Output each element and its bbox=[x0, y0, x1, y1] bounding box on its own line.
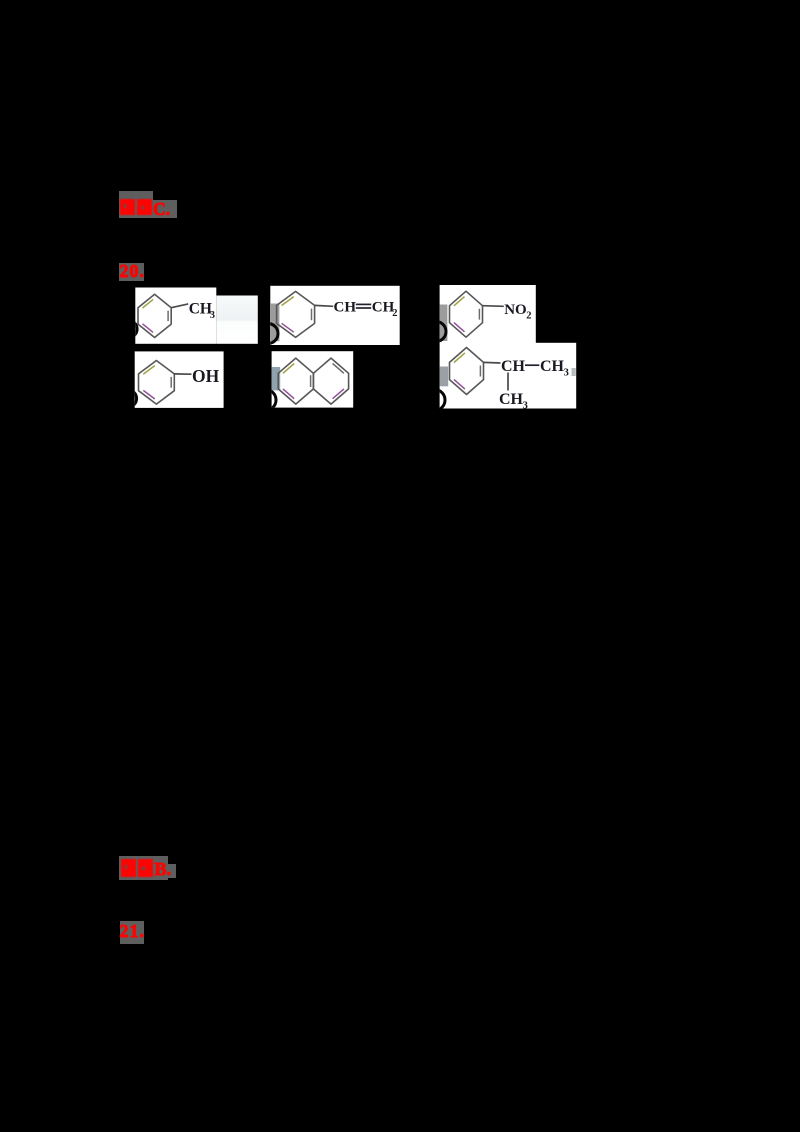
shared double bond of naphthalene bbox=[310, 375, 312, 387]
double bond R4 UR-LR bbox=[170, 377, 172, 388]
question number highlight "21." bbox=[120, 921, 144, 945]
benzene ring R1 bbox=[138, 294, 171, 337]
gray scan column at left edge of box 2 bbox=[271, 304, 280, 342]
svg-text:CH: CH bbox=[499, 391, 524, 408]
red text 21. bbox=[120, 921, 146, 942]
double bond R2 UL-T bbox=[282, 297, 294, 306]
answer highlight "故选B." bbox=[119, 856, 168, 880]
svg-text:3: 3 bbox=[523, 400, 528, 411]
benzene ring R2 bbox=[277, 291, 315, 337]
red character 故 bbox=[120, 199, 135, 216]
svg-text:4: 4 bbox=[126, 394, 132, 406]
vertical bond CH to CH3 bbox=[507, 373, 509, 391]
white image box 3 (nitrobenzene) bbox=[440, 285, 536, 343]
gray scan column at left edge of box 5 bbox=[272, 367, 281, 390]
svg-text:2: 2 bbox=[392, 308, 397, 319]
bond ring2 to vinyl bbox=[315, 304, 334, 307]
circled number 2 (partially visible at box edge) bbox=[258, 324, 278, 344]
circled number 6 (partially visible at box edge) bbox=[424, 390, 445, 411]
double bond R5L B-LL bbox=[283, 389, 294, 399]
double bond R3 B-LL bbox=[454, 323, 465, 332]
gray scan column at left edge of box 6 bbox=[440, 367, 449, 387]
double bond R1 UL-T bbox=[143, 299, 154, 308]
red character 选 bbox=[137, 199, 152, 216]
svg-text:CH: CH bbox=[540, 358, 565, 375]
double bond R4 UL-T bbox=[143, 366, 155, 375]
faded ghost strip right of box 1 bbox=[216, 296, 257, 344]
white image box 2 (styrene) bbox=[270, 286, 399, 345]
double bond R5L UL-T bbox=[283, 364, 294, 374]
double bond R1 B-LL bbox=[143, 324, 154, 333]
benzene ring R6 bbox=[450, 348, 484, 395]
question number highlight "20." bbox=[119, 263, 144, 281]
svg-text:CH: CH bbox=[334, 300, 357, 316]
red text B. bbox=[155, 859, 172, 880]
circled number 5 (partially visible at box edge) bbox=[255, 390, 276, 411]
bond ring6 to CH bbox=[484, 361, 501, 364]
svg-text:6: 6 bbox=[432, 396, 438, 408]
circled number 3 (partially visible at box edge) bbox=[426, 322, 446, 342]
white image box 1 (toluene) bbox=[135, 288, 216, 344]
svg-text:3: 3 bbox=[434, 327, 440, 339]
svg-text:2: 2 bbox=[526, 310, 531, 321]
double bond R6 B-LL bbox=[454, 380, 465, 390]
benzene ring R4 bbox=[139, 361, 175, 405]
svg-text:CH: CH bbox=[501, 358, 526, 375]
gray scan column at left edge of box 3 bbox=[440, 305, 448, 342]
red text C. bbox=[153, 199, 170, 220]
double bond R5R T-UR bbox=[333, 364, 344, 374]
svg-text:OH: OH bbox=[192, 366, 220, 386]
double bond R3 UL-T bbox=[454, 297, 465, 306]
svg-text:CH: CH bbox=[189, 301, 212, 318]
svg-text:3: 3 bbox=[564, 368, 569, 379]
gray comma remnant at right edge of box 6 bbox=[572, 368, 576, 376]
double bond R1 UR-LR bbox=[167, 311, 169, 321]
circled number 4 (partially visible at box edge) bbox=[119, 390, 136, 407]
double bond R3 UR-LR bbox=[478, 309, 480, 320]
bond ring3 to NO2 bbox=[483, 305, 504, 308]
bond ring1 to CH3 bbox=[171, 304, 188, 308]
double bond R6 UR-LR bbox=[479, 366, 481, 377]
benzene ring R5R bbox=[313, 358, 348, 404]
double bond R2 UR-LR bbox=[311, 309, 313, 321]
answer highlight "故选C." bbox=[119, 191, 153, 218]
benzene ring R5L bbox=[278, 358, 313, 404]
svg-text:5: 5 bbox=[263, 396, 269, 408]
svg-text:NO: NO bbox=[504, 302, 527, 318]
double bond R2 B-LL bbox=[282, 323, 294, 332]
red text 20. bbox=[120, 261, 146, 282]
svg-text:1: 1 bbox=[126, 325, 132, 337]
benzene ring R3 bbox=[450, 291, 483, 337]
svg-text:3: 3 bbox=[210, 310, 215, 321]
svg-text:2: 2 bbox=[266, 329, 272, 341]
red character 故 bbox=[121, 859, 136, 877]
circled number 1 (partially visible at box edge) bbox=[120, 320, 137, 337]
bond ring4 to OH bbox=[174, 373, 191, 375]
white image box 5 (naphthalene) bbox=[272, 351, 354, 407]
white image box 4 (phenol) bbox=[135, 351, 224, 408]
double bond R4 B-LL bbox=[143, 390, 155, 399]
white image box 6 (isopropylbenzene) bbox=[440, 343, 577, 409]
red character 选 bbox=[138, 859, 154, 877]
double bond R5R LR-B bbox=[333, 389, 344, 399]
double bond R6 UL-T bbox=[454, 353, 465, 363]
